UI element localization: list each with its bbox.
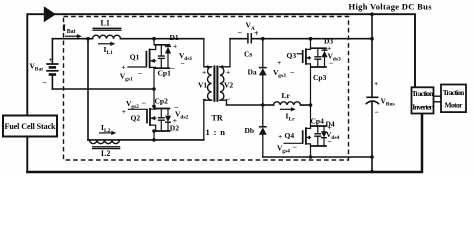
inductor L1	[93, 19, 122, 39]
svg-text:Cp1: Cp1	[158, 69, 172, 78]
svg-text:High Voltage DC Bus: High Voltage DC Bus	[349, 1, 433, 11]
box traction inverter	[412, 87, 435, 113]
svg-text:−: −	[226, 95, 230, 104]
wire phase2 feed down	[87, 39, 89, 140]
svg-text:gs4: gs4	[282, 148, 290, 154]
capacitor Cp1	[158, 45, 175, 78]
capacitor Cp3	[313, 48, 327, 82]
label V1 V2 TR 1:n	[198, 68, 233, 138]
svg-text:Cp4: Cp4	[311, 116, 325, 125]
label Q3 Vgs3	[273, 51, 296, 79]
label Q4 Vgs4	[277, 131, 297, 154]
q3 cell bars and stubs	[311, 39, 327, 105]
node L1 Q1 junction	[152, 37, 156, 41]
wire V2 bottom to Lr node	[227, 104, 263, 106]
q2 cell bars and stubs	[152, 89, 170, 140]
svg-text:Bus: Bus	[386, 101, 395, 107]
diode Db	[245, 126, 267, 157]
svg-text:+: +	[173, 42, 177, 51]
svg-text:+: +	[122, 107, 126, 116]
svg-text:−: −	[181, 59, 185, 68]
node top rail VBus junction	[370, 37, 374, 41]
svg-text:Bat: Bat	[35, 66, 43, 72]
svg-text:TR: TR	[212, 114, 223, 123]
label I_Lr with arrow	[281, 107, 296, 122]
svg-text:−: −	[202, 95, 206, 104]
svg-text:ds1: ds1	[184, 56, 192, 62]
svg-text:L1: L1	[107, 50, 114, 56]
wire bottom bus	[27, 115, 422, 173]
svg-text:ds4: ds4	[331, 135, 339, 141]
inductor L2	[90, 140, 121, 158]
box traction motor	[441, 85, 466, 113]
node Lr right junction	[309, 103, 313, 107]
label I_L2 with arrow	[100, 123, 117, 135]
svg-text:gs3: gs3	[278, 73, 286, 79]
wire secondary top rail	[251, 38, 372, 40]
svg-text:Cp2: Cp2	[155, 97, 169, 106]
diode D4	[321, 126, 327, 146]
label V_A	[238, 21, 260, 39]
diode D2	[165, 109, 171, 132]
node input junction	[86, 37, 90, 41]
svg-text:−: −	[375, 108, 379, 117]
label I_Bat with arrow	[63, 23, 82, 38]
label Vds2 D2	[170, 103, 189, 133]
svg-text:Traction: Traction	[443, 88, 465, 97]
node Cs Da junction	[261, 37, 265, 41]
svg-text:Lr: Lr	[289, 117, 296, 123]
svg-text:V1: V1	[198, 81, 207, 90]
svg-text:Da: Da	[248, 68, 257, 77]
svg-text:Fuel Cell Stack: Fuel Cell Stack	[5, 122, 57, 131]
label I_L1 with arrow	[99, 42, 116, 56]
svg-text:+: +	[226, 68, 230, 77]
node L2 Q2 junction	[152, 138, 156, 142]
svg-text:Cs: Cs	[244, 50, 252, 59]
svg-text:Db: Db	[245, 126, 255, 135]
node Q4 bottom junction	[309, 155, 313, 159]
wire top HV bus	[27, 14, 415, 172]
capacitor Cp4	[311, 116, 325, 146]
svg-text:+: +	[278, 132, 282, 141]
power flow arrow	[44, 6, 56, 22]
svg-text:−: −	[293, 143, 297, 152]
svg-text:−: −	[43, 78, 47, 87]
wire inverter to motor links	[435, 96, 442, 102]
node Lr left junction	[261, 103, 265, 107]
svg-text:Q1: Q1	[130, 52, 140, 61]
label Q1 Vgs1	[120, 52, 142, 82]
node top bus VBus junction	[370, 12, 374, 16]
node mid rail junction	[152, 87, 156, 91]
capacitor Cs	[230, 33, 252, 59]
capacitor Cp2	[155, 97, 169, 132]
svg-text:+: +	[121, 63, 125, 72]
mosfet Q2	[129, 108, 156, 131]
svg-text:L2: L2	[101, 149, 110, 158]
capacitor VBus	[366, 14, 394, 173]
wire secondary bottom rail	[263, 156, 372, 158]
svg-text:Q4: Q4	[285, 131, 295, 140]
diode D1	[165, 45, 171, 68]
svg-text:−: −	[142, 99, 146, 108]
svg-text:L1: L1	[101, 19, 110, 28]
inductor Lr	[263, 91, 311, 105]
label D4 Vds4	[326, 119, 340, 146]
label D1 Vds1	[170, 33, 193, 68]
svg-text:+: +	[374, 79, 378, 88]
diode D3	[321, 48, 327, 67]
svg-text:−: −	[328, 137, 332, 146]
svg-text:+: +	[277, 58, 281, 67]
battery VBat	[30, 39, 59, 89]
svg-text:ds2: ds2	[180, 114, 188, 120]
svg-text:−: −	[138, 69, 142, 78]
mosfet Q3	[297, 48, 310, 67]
wire L2 rail to transformer primary bottom	[88, 139, 204, 141]
diode Da	[248, 39, 267, 127]
label D3 Vds3	[324, 37, 341, 68]
svg-text:−: −	[238, 28, 243, 37]
svg-text:+: +	[202, 68, 206, 77]
svg-text:−: −	[171, 64, 175, 73]
mosfet Q4	[284, 126, 311, 146]
svg-text:Lr: Lr	[282, 91, 291, 100]
svg-text:Traction: Traction	[412, 89, 434, 98]
svg-text:1 : n: 1 : n	[206, 127, 226, 137]
svg-text:V2: V2	[224, 81, 233, 90]
svg-text:Q2: Q2	[131, 114, 141, 123]
wire mid rail battery negative	[52, 88, 154, 90]
svg-text:+: +	[254, 29, 259, 38]
svg-text:D2: D2	[170, 124, 179, 133]
svg-text:+: +	[49, 55, 53, 64]
svg-text:gs1: gs1	[125, 76, 133, 82]
svg-text:−: −	[329, 59, 333, 68]
dashed converter box	[64, 17, 349, 161]
node VBus bottom junction	[370, 155, 374, 159]
svg-text:Q3: Q3	[287, 51, 297, 60]
svg-text:ds3: ds3	[333, 56, 341, 62]
wire L1 to transformer primary top	[121, 38, 204, 40]
svg-text:Bat: Bat	[67, 29, 76, 35]
svg-text:gs2: gs2	[131, 104, 139, 110]
q1 cell bars and stubs	[154, 39, 170, 89]
fuel cell stack box	[3, 116, 57, 137]
wire battery plus to input node	[52, 38, 92, 40]
label Vgs2 Q2	[122, 99, 146, 123]
q4 cell bars and stubs	[311, 105, 327, 157]
svg-text:Motor: Motor	[445, 101, 464, 110]
svg-text:Cp3: Cp3	[313, 73, 327, 82]
svg-text:−: −	[290, 68, 294, 77]
node Q3 top junction	[309, 37, 313, 41]
transformer TR	[204, 39, 230, 140]
svg-text:Inverter: Inverter	[412, 103, 433, 112]
mosfet Q1	[128, 45, 156, 69]
